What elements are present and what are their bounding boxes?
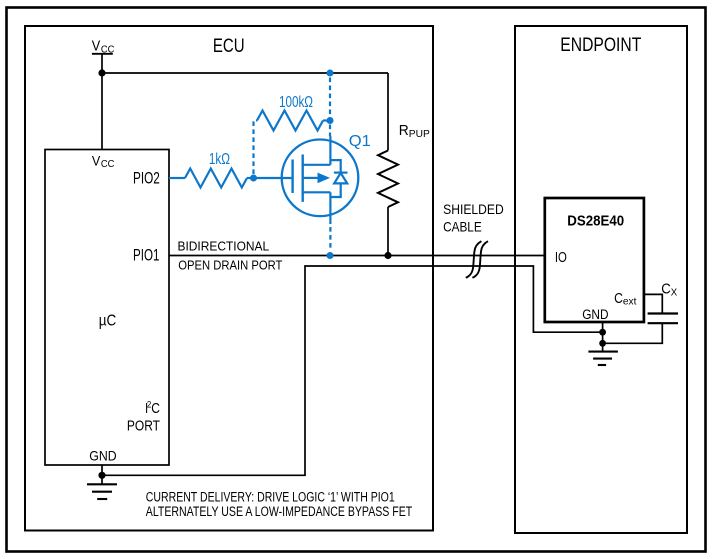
svg-text:V: V (92, 154, 101, 170)
svg-text:DS28E40: DS28E40 (567, 212, 624, 229)
svg-text:PIO2: PIO2 (133, 170, 160, 188)
svg-text:V: V (92, 39, 101, 55)
svg-text:CURRENT DELIVERY: DRIVE LOGIC: CURRENT DELIVERY: DRIVE LOGIC ‘1’ WITH P… (146, 490, 395, 505)
svg-text:ALTERNATELY USE A LOW-IMPEDANC: ALTERNATELY USE A LOW-IMPEDANCE BYPASS F… (146, 504, 412, 519)
svg-text:PORT: PORT (127, 418, 160, 434)
svg-text:CC: CC (101, 44, 115, 55)
svg-text:CC: CC (101, 159, 115, 170)
svg-text:1kΩ: 1kΩ (209, 151, 230, 168)
svg-text:OPEN DRAIN PORT: OPEN DRAIN PORT (178, 258, 282, 273)
svg-text:BIDIRECTIONAL: BIDIRECTIONAL (178, 238, 270, 253)
svg-text:CABLE: CABLE (443, 219, 482, 234)
svg-text:PUP: PUP (409, 129, 430, 140)
svg-text:GND: GND (89, 448, 116, 464)
svg-text:SHIELDED: SHIELDED (443, 202, 504, 217)
svg-text:R: R (399, 122, 409, 139)
svg-text:Q1: Q1 (349, 133, 371, 150)
svg-text:ENDPOINT: ENDPOINT (560, 35, 641, 56)
svg-text:100kΩ: 100kΩ (279, 94, 313, 111)
svg-text:GND: GND (582, 307, 608, 323)
svg-text:ECU: ECU (213, 35, 245, 57)
svg-text:µC: µC (99, 313, 117, 330)
svg-text:C: C (661, 282, 671, 298)
svg-text:PIO1: PIO1 (133, 247, 159, 265)
svg-text:C: C (151, 400, 160, 417)
svg-text:C: C (614, 291, 623, 307)
svg-text:X: X (671, 287, 678, 298)
svg-text:IO: IO (555, 250, 567, 266)
svg-text:ext: ext (623, 297, 637, 308)
